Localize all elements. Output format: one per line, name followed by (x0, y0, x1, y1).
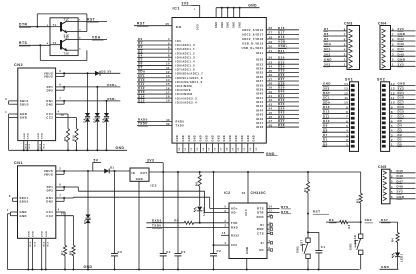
wire CN5 pin 5 net 3V3 (390, 193, 416, 195)
IC1 bottom ground pins (176, 143, 178, 153)
wire net D48 from IC1 pin 48 (266, 126, 299, 128)
svg-text:40: 40 (269, 90, 273, 94)
wire RST to EN pin 45 (134, 25, 172, 27)
svg-text:CN1: CN1 (14, 161, 23, 165)
svg-text:GND: GND (398, 82, 406, 86)
svg-text:10: 10 (166, 62, 170, 66)
svg-text:D1: D1 (110, 166, 114, 170)
wire cross-couple top loop (36, 14, 38, 27)
svg-text:4: 4 (391, 129, 393, 133)
svg-text:IO33: IO33 (256, 62, 264, 66)
resistor R7 (63, 245, 66, 255)
svg-text:6: 6 (59, 84, 61, 87)
svg-text:GND: GND (242, 135, 244, 142)
CN1 DN pins pair stub (56, 197, 64, 199)
svg-text:ADC2_6/IO17: ADC2_6/IO17 (242, 32, 264, 36)
svg-text:CTS: CTS (257, 232, 264, 236)
svg-text:GND: GND (240, 21, 242, 28)
svg-text:3V3: 3V3 (231, 243, 237, 247)
svg-text:13: 13 (391, 87, 395, 91)
wire SV1 pin 5 net D9 (322, 127, 350, 129)
svg-text:8: 8 (392, 27, 394, 31)
svg-text:2: 2 (59, 70, 61, 73)
capacitor C3 (114, 170, 116, 172)
wire SV2 pin 1 net D0 (390, 145, 416, 147)
svg-text:VCC: VCC (244, 209, 248, 216)
svg-text:IO2/ADC1_1: IO2/ADC1_1 (176, 47, 196, 51)
svg-text:4: 4 (58, 209, 60, 212)
svg-text:9: 9 (346, 105, 348, 109)
wire SV2 pin 6 net D5 (390, 122, 416, 124)
svg-text:DCD: DCD (257, 215, 264, 219)
wire CN2 ground rail (9, 149, 127, 151)
IC2 R232 stub pin 15 (221, 234, 229, 236)
svg-text:IO5/ADC1_4: IO5/ADC1_4 (176, 59, 196, 63)
svg-text:4: 4 (225, 242, 227, 245)
svg-text:IN: IN (132, 171, 136, 175)
svg-text:19: 19 (166, 99, 170, 103)
svg-text:DTR: DTR (281, 210, 289, 214)
wire net D45 from IC1 pin 45 (266, 113, 299, 115)
svg-text:8: 8 (344, 27, 346, 31)
svg-text:IO47: IO47 (256, 121, 264, 125)
node ground rail junction (246, 269, 248, 271)
resistor R3 pullup (360, 172, 362, 193)
CN2 GND pins wire (9, 113, 18, 115)
svg-text:IO21: IO21 (256, 51, 264, 55)
svg-text:D12: D12 (323, 110, 330, 114)
svg-text:GND: GND (195, 135, 197, 142)
wire SV2 pin 10 net D17 (390, 103, 416, 105)
svg-text:57: 57 (221, 147, 223, 151)
svg-text:GND: GND (33, 231, 35, 237)
svg-text:C2: C2 (217, 249, 222, 253)
svg-text:R1: R1 (303, 188, 307, 192)
svg-text:GND: GND (216, 21, 218, 28)
svg-text:4: 4 (344, 48, 346, 52)
svg-text:47: 47 (269, 119, 273, 123)
svg-text:B12: B12 (34, 242, 36, 247)
CN1 GND pins wire to ground (10, 211, 17, 213)
wire CN5 pin 6 net GND (390, 198, 416, 200)
svg-text:IO39: IO39 (256, 87, 264, 91)
svg-text:D13: D13 (323, 105, 330, 109)
svg-text:IO10/SS/ADC1_9: IO10/SS/ADC1_9 (176, 80, 203, 84)
wire SV2 pin 4 net D3 (390, 131, 416, 133)
svg-text:DP2: DP2 (47, 88, 54, 92)
wire SV1 pin 9 net D13 (322, 108, 350, 110)
svg-text:15: 15 (222, 232, 226, 235)
svg-text:IO11/MOSI: IO11/MOSI (176, 84, 193, 88)
svg-text:46: 46 (269, 115, 273, 119)
svg-text:30: 30 (269, 44, 273, 48)
wire CN4 pin 2 net GND (391, 60, 416, 62)
svg-text:D43: D43 (398, 37, 405, 41)
node ground rail junction (87, 269, 89, 271)
svg-text:39: 39 (166, 122, 170, 126)
wire SV1 pin 8 net D12 (322, 113, 350, 115)
resistor R5 (184, 221, 193, 224)
svg-text:D11: D11 (323, 114, 330, 118)
node RST net junction (307, 213, 309, 215)
svg-text:D5: D5 (398, 119, 403, 123)
svg-text:7: 7 (59, 98, 61, 101)
wire cross-couple bottom loop (39, 45, 41, 60)
voltage regulator IC3 (130, 168, 149, 181)
wire SV2 pin 3 net D2 (390, 136, 416, 138)
svg-text:T2E: T2E (64, 52, 70, 55)
svg-text:D40: D40 (398, 52, 405, 56)
svg-text:D14: D14 (398, 114, 405, 118)
svg-text:3: 3 (344, 53, 346, 57)
IC2 no-connect pins DCD RI DSR CTS (267, 216, 270, 218)
svg-text:LED2: LED2 (202, 207, 206, 216)
svg-text:R9: R9 (63, 137, 67, 141)
wire CN3 pin 2 net GND (323, 60, 347, 62)
svg-text:D41: D41 (398, 47, 405, 51)
CN1 VBUS pins pair stub (56, 170, 64, 172)
svg-text:40: 40 (166, 118, 170, 122)
wire SV1 pin 4 net D8 (322, 131, 350, 133)
svg-text:IO45: IO45 (256, 113, 264, 117)
svg-text:26: 26 (269, 56, 273, 60)
svg-text:11: 11 (269, 222, 273, 225)
svg-text:58: 58 (226, 147, 228, 151)
wire CN3 pin 3 net 3V3 (323, 55, 347, 57)
resistor R6 (199, 171, 201, 173)
capacitor C2 (213, 171, 215, 173)
svg-text:B12: B12 (29, 144, 31, 149)
wire D1 to IC3 IN (109, 170, 130, 172)
node ground rail junction (114, 269, 116, 271)
wire CN4 pin 5 net D42 (391, 45, 416, 47)
svg-text:B12: B12 (30, 242, 32, 247)
svg-text:RTS: RTS (281, 205, 289, 209)
wire CN3 pin 1 net 3V3 (323, 65, 347, 67)
node ground rail junction (213, 269, 215, 271)
svg-text:IO34: IO34 (256, 66, 264, 70)
svg-text:29: 29 (269, 40, 273, 44)
svg-text:14: 14 (269, 205, 273, 208)
wire net D6 to IC1 pin 10 (137, 64, 172, 66)
svg-text:EN: EN (176, 25, 182, 29)
svg-text:T1: T1 (53, 24, 57, 27)
svg-text:D1: D1 (323, 138, 328, 142)
wire net D36 from IC1 pin 36 (266, 76, 299, 78)
wire SV2 pin 7 net D14 (390, 117, 416, 119)
wire 3V3 output rail (149, 171, 361, 173)
wire VDA output (78, 38, 107, 40)
svg-text:1: 1 (194, 9, 196, 11)
wire net D42 from IC1 pin 42 (266, 101, 299, 103)
svg-text:GND: GND (323, 82, 331, 86)
svg-text:GND: GND (236, 135, 238, 142)
tvs diode D5 on 5V (87, 171, 89, 215)
svg-text:R6: R6 (195, 182, 199, 186)
svg-text:50: 50 (179, 147, 181, 151)
svg-text:5: 5 (79, 48, 81, 50)
svg-text:DSR: DSR (257, 227, 264, 231)
wire CN5 pin 2 net D48 (390, 177, 416, 179)
node ground rail junction (318, 269, 320, 271)
node VBUS-TVS junction (87, 72, 89, 74)
svg-text:56: 56 (215, 147, 217, 151)
svg-text:3V3: 3V3 (195, 24, 199, 30)
svg-text:IO36: IO36 (256, 75, 264, 79)
CN2 DP pins pair stub (56, 86, 65, 88)
wire net D37 from IC1 pin 37 (266, 80, 299, 82)
svg-text:6: 6 (346, 119, 348, 123)
svg-text:TXD: TXD (231, 221, 238, 225)
svg-text:D7: D7 (92, 118, 96, 122)
svg-text:10: 10 (391, 101, 395, 105)
wire SV2 pin 9 net D16 (390, 108, 416, 110)
svg-text:UD-: UD- (231, 211, 237, 215)
svg-text:RTS: RTS (257, 207, 264, 211)
svg-text:SDA: SDA (324, 42, 332, 46)
svg-text:IO13/MISO: IO13/MISO (176, 92, 193, 96)
svg-text:IO37: IO37 (256, 79, 264, 83)
svg-text:6: 6 (168, 45, 170, 49)
wire net D5 to IC1 pin 9 (137, 60, 172, 62)
svg-text:D17: D17 (278, 30, 285, 34)
node VBUS junction (87, 170, 89, 172)
svg-text:D18: D18 (398, 96, 405, 100)
wire net D1 to IC1 pin 5 (137, 44, 172, 46)
svg-text:3V3: 3V3 (324, 52, 331, 56)
wire CN3 pin 8 net D7 (323, 30, 347, 32)
capacitor C4 (162, 172, 164, 254)
svg-text:11: 11 (166, 66, 170, 70)
wire LED1 ground stub (380, 268, 399, 270)
svg-text:GND: GND (116, 146, 125, 150)
svg-text:IO9/SCL/ADC1_8: IO9/SCL/ADC1_8 (176, 76, 203, 80)
wire net D2 to IC1 pin 6 (137, 48, 172, 50)
CN2 CC1 wire to resistor R9 (56, 113, 68, 115)
svg-text:8: 8 (346, 110, 348, 114)
wire SV1 pin 3 net D7 (322, 136, 350, 138)
svg-text:D10: D10 (323, 119, 330, 123)
svg-text:RI: RI (260, 223, 264, 227)
svg-text:UD+: UD+ (231, 207, 238, 211)
switch SW1 LOAD button (360, 222, 362, 234)
svg-text:3V3: 3V3 (397, 190, 404, 194)
svg-text:OUT: OUT (140, 171, 147, 175)
svg-text:D9: D9 (329, 218, 334, 222)
svg-text:IO3/ADC1_2: IO3/ADC1_2 (176, 51, 196, 55)
svg-text:D5: D5 (324, 37, 329, 41)
svg-text:GND: GND (218, 135, 220, 142)
svg-text:D9: D9 (323, 124, 328, 128)
svg-text:CN2: CN2 (14, 63, 23, 67)
svg-text:12: 12 (391, 91, 395, 95)
IC U1 main module IC1 (172, 18, 266, 144)
svg-text:D0: D0 (323, 142, 328, 146)
svg-text:43: 43 (269, 102, 273, 106)
svg-text:5V: 5V (108, 69, 112, 73)
svg-text:IO12/SCK: IO12/SCK (176, 88, 192, 92)
svg-text:GND: GND (381, 265, 390, 269)
wire net SCL to IC1 pin 13 (137, 77, 172, 79)
svg-text:R10: R10 (72, 135, 76, 141)
svg-text:GND: GND (46, 231, 48, 237)
svg-text:SV2: SV2 (377, 78, 385, 82)
svg-text:GND: GND (24, 133, 26, 139)
node XD0 junction (360, 221, 362, 223)
svg-text:SCL: SCL (324, 47, 331, 51)
svg-text:IO38: IO38 (256, 83, 264, 87)
node ground rail junction (138, 269, 140, 271)
wire SV1 pin 13 net 3V3 (322, 89, 350, 91)
svg-text:GND: GND (177, 135, 179, 142)
node RST to C1 branch (307, 231, 309, 233)
capacitor C1 (318, 232, 320, 250)
svg-text:LOAD: LOAD (353, 235, 357, 244)
svg-text:D8: D8 (323, 128, 328, 132)
wire SV2 pin 2 net D1 (390, 141, 416, 143)
wire net D41 from IC1 pin 41 (266, 97, 299, 99)
wire CN3 pin 6 net D5 (323, 40, 347, 42)
svg-text:GND: GND (228, 21, 230, 28)
svg-text:RST: RST (323, 91, 330, 95)
svg-text:D15: D15 (398, 110, 405, 114)
wire net D39 from IC1 pin 39 (266, 88, 299, 90)
svg-text:SBU2: SBU2 (20, 199, 29, 203)
svg-text:C5: C5 (181, 250, 186, 254)
svg-text:GND: GND (189, 135, 191, 142)
svg-text:IO40: IO40 (256, 92, 264, 96)
svg-text:GND: GND (398, 57, 406, 61)
svg-text:2: 2 (391, 138, 393, 142)
svg-text:IO14/ADC2_3: IO14/ADC2_3 (176, 96, 198, 100)
svg-text:28: 28 (269, 35, 273, 39)
svg-text:GND: GND (136, 177, 143, 181)
svg-text:4: 4 (47, 42, 49, 45)
svg-text:8: 8 (269, 247, 271, 250)
svg-text:IO8/SDA/ADC1_7: IO8/SDA/ADC1_7 (176, 72, 204, 76)
svg-text:60: 60 (238, 147, 240, 151)
node ground rail junction (307, 269, 309, 271)
IC2 V3 pin wire to C2 (214, 244, 230, 246)
svg-text:GND: GND (248, 135, 250, 142)
svg-text:IO35: IO35 (256, 71, 264, 75)
svg-text:T2C: T2C (64, 37, 70, 40)
CN1 DP pins pair stub (56, 186, 64, 188)
svg-text:2: 2 (391, 174, 393, 178)
svg-text:IO26: IO26 (256, 57, 264, 61)
svg-text:3V3: 3V3 (147, 158, 154, 162)
ground pins top of IC1 (215, 8, 217, 18)
svg-text:31: 31 (269, 49, 273, 53)
CN2 shield ground pins (23, 141, 25, 151)
wire net D12 to IC1 pin 16 (137, 89, 172, 91)
svg-text:D42: D42 (398, 42, 405, 46)
svg-text:GND: GND (20, 112, 27, 116)
wire net USB+ from IC1 pin 30 (266, 47, 299, 49)
wire CN3 pin 4 net SCL (323, 50, 347, 52)
wire net D44 from IC1 pin 44 (266, 109, 299, 111)
svg-text:D16: D16 (398, 105, 405, 109)
wire SV1 pin 10 net SDA (322, 103, 350, 105)
wire SV1 pin 14 net GND (322, 85, 350, 87)
svg-text:GND: GND (230, 135, 232, 142)
svg-text:10: 10 (269, 226, 273, 229)
svg-text:IC1: IC1 (173, 7, 180, 11)
svg-text:TXD0: TXD0 (176, 124, 185, 128)
svg-text:55: 55 (209, 147, 211, 151)
wire net D11 to IC1 pin 15 (137, 85, 172, 87)
node LED2-R5 junction (199, 222, 201, 224)
svg-text:IO43: IO43 (256, 104, 264, 108)
svg-text:3: 3 (391, 133, 393, 137)
svg-text:SW1: SW1 (349, 243, 353, 250)
wire RST output (78, 20, 107, 22)
wire CN5 pin 4 net D46 (390, 187, 416, 189)
svg-text:VBUS: VBUS (44, 75, 53, 79)
svg-text:1: 1 (346, 143, 348, 147)
svg-text:7: 7 (346, 115, 348, 119)
svg-text:VDA: VDA (92, 35, 101, 39)
wire SV1 pin 12 net RST (322, 94, 350, 96)
svg-text:13: 13 (344, 87, 348, 91)
svg-text:GND: GND (20, 214, 27, 218)
svg-text:33: 33 (269, 61, 273, 65)
svg-text:GND: GND (207, 135, 209, 142)
svg-text:D17: D17 (398, 100, 405, 104)
svg-text:7: 7 (392, 32, 394, 36)
svg-text:2: 2 (59, 168, 61, 171)
svg-text:IO6/ADC1_5: IO6/ADC1_5 (176, 64, 196, 68)
svg-text:GND: GND (84, 265, 93, 269)
svg-text:8: 8 (9, 195, 11, 198)
svg-text:R2: R2 (348, 224, 351, 228)
svg-text:D4: D4 (398, 124, 403, 128)
svg-text:26: 26 (269, 26, 273, 30)
svg-text:IO7/ADC1_6: IO7/ADC1_6 (176, 68, 196, 72)
wire net D26 from IC1 pin 26 (266, 58, 299, 60)
svg-text:IO4/ADC1_3: IO4/ADC1_3 (176, 55, 196, 59)
svg-text:C3: C3 (118, 250, 123, 254)
svg-text:RXD0: RXD0 (176, 120, 185, 124)
svg-text:IO41: IO41 (256, 96, 264, 100)
svg-text:27: 27 (269, 31, 273, 35)
svg-text:GND: GND (222, 21, 224, 28)
svg-text:1: 1 (391, 169, 393, 173)
svg-text:D21: D21 (278, 49, 285, 53)
svg-text:TXD0: TXD0 (138, 122, 147, 126)
svg-text:12: 12 (344, 91, 348, 95)
wire USB- net at CN2 (64, 100, 120, 102)
svg-text:1: 1 (7, 209, 9, 212)
wire USB D+ from CN1 to IC2 (64, 186, 78, 188)
svg-text:SBU2: SBU2 (20, 102, 29, 106)
svg-text:5: 5 (344, 42, 346, 46)
svg-text:USB-: USB- (107, 97, 117, 101)
svg-text:5: 5 (225, 206, 227, 209)
CN2 SBU stubs (9, 100, 18, 102)
svg-text:RXD: RXD (231, 226, 238, 230)
svg-text:IO42: IO42 (256, 100, 264, 104)
wire net SDA to IC1 pin 12 (137, 73, 172, 75)
svg-text:GND: GND (28, 231, 30, 237)
svg-text:10: 10 (344, 101, 348, 105)
svg-text:RST: RST (313, 210, 321, 214)
svg-text:USB_D-/IO19: USB_D-/IO19 (242, 42, 263, 46)
svg-text:3: 3 (392, 53, 394, 57)
svg-text:B12: B12 (48, 242, 50, 247)
CN1 shield ground pins (27, 238, 29, 269)
wire net D21 from IC1 pin 31 (266, 52, 299, 54)
